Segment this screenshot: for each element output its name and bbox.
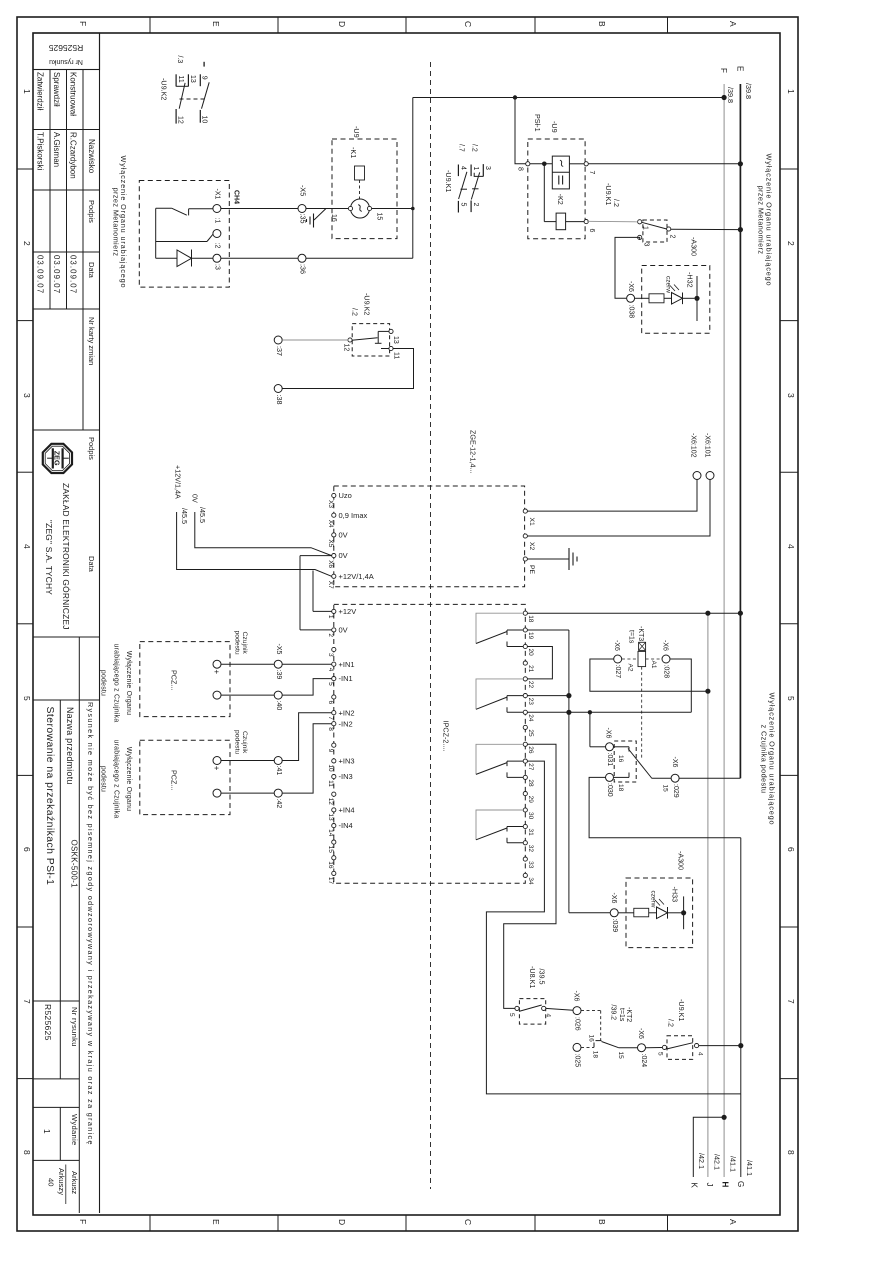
svg-text:16: 16	[588, 1035, 595, 1043]
svg-text:z Czujnika podestu: z Czujnika podestu	[760, 725, 769, 794]
svg-text:przez Metanomierz: przez Metanomierz	[112, 188, 121, 257]
wire :027 loop to J	[590, 659, 708, 691]
wire rect out	[569, 163, 584, 165]
svg-text:7: 7	[22, 999, 32, 1004]
svg-text:3: 3	[484, 166, 491, 170]
wire branch to X6:031	[589, 712, 591, 747]
svg-text:29: 29	[527, 796, 534, 804]
svg-text:-X6: -X6	[627, 281, 634, 292]
svg-text:8: 8	[786, 1150, 796, 1155]
svg-text:13: 13	[392, 336, 399, 344]
wire pin7 to E	[588, 163, 740, 165]
svg-text:A.Gisman: A.Gisman	[52, 132, 61, 167]
svg-text:/42.1: /42.1	[697, 1153, 706, 1169]
resistor in A300-2	[618, 912, 634, 914]
svg-text:Nazwisko: Nazwisko	[87, 139, 96, 174]
svg-text:Data: Data	[87, 556, 96, 573]
svg-text:27: 27	[527, 763, 534, 771]
svg-text:22: 22	[527, 681, 534, 689]
svg-text:/45.5: /45.5	[180, 508, 189, 524]
svg-text:CH4: CH4	[233, 190, 240, 204]
svg-text:R.Czardybon: R.Czardybon	[69, 132, 78, 179]
svg-text:OSKK-500-1: OSKK-500-1	[70, 840, 79, 889]
svg-text:czerw: czerw	[665, 276, 672, 293]
svg-text:+12V/1,4A: +12V/1,4A	[174, 465, 183, 499]
svg-text:10: 10	[327, 764, 334, 772]
svg-text:Arkuszy: Arkuszy	[57, 1168, 66, 1195]
svg-text:podestu: podestu	[100, 766, 107, 792]
svg-text::39: :39	[275, 670, 282, 680]
svg-text:-KT3: -KT3	[637, 626, 644, 641]
svg-text:4: 4	[697, 1052, 704, 1056]
svg-text:X4: X4	[327, 520, 334, 528]
ZGE pin X2	[523, 534, 527, 538]
ZGE pin PE	[523, 557, 527, 561]
terminal -X1:3	[213, 254, 221, 262]
svg-text:-U9.K1: -U9.K1	[604, 183, 613, 205]
svg-text:-IN1: -IN1	[339, 674, 353, 683]
wire X1:1 to X5:35	[221, 208, 298, 210]
wire :37 to contact	[282, 339, 348, 341]
wire 0V branch to pin2	[300, 555, 332, 557]
svg-text:03.09.07: 03.09.07	[52, 255, 61, 294]
svg-text:Nr rysunku: Nr rysunku	[70, 1007, 79, 1047]
svg-text:4: 4	[327, 668, 334, 672]
svg-text:Rysunek nie może być bez pisem: Rysunek nie może być bez pisemnej zgody …	[86, 702, 95, 1146]
svg-text::37: :37	[275, 346, 284, 356]
terminal -X6:039	[610, 909, 618, 917]
svg-text::36: :36	[299, 264, 308, 274]
wire rect in with branch	[530, 163, 553, 165]
svg-text:10: 10	[200, 116, 207, 124]
svg-text:X7: X7	[327, 581, 334, 589]
svg-text:/42.1: /42.1	[713, 1154, 722, 1170]
terminal -X6:102	[693, 472, 701, 480]
wire pin24 to KT3 loop	[527, 711, 691, 713]
box PSl-1 -U9	[528, 139, 585, 239]
svg-text:E: E	[736, 66, 745, 71]
svg-text:16: 16	[617, 755, 624, 763]
svg-text:/39.2: /39.2	[610, 1005, 617, 1021]
svg-text::028: :028	[663, 665, 670, 679]
svg-text:PCZ...: PCZ...	[170, 670, 179, 690]
svg-text:X1: X1	[528, 518, 535, 527]
terminal -X5:40	[274, 691, 282, 699]
svg-text:F: F	[78, 21, 88, 26]
wire +12V branch to pin1	[312, 571, 314, 612]
svg-text:2: 2	[669, 235, 676, 239]
svg-text:16: 16	[330, 214, 337, 222]
wire PCZ2+ to IN2+	[221, 760, 274, 762]
svg-text:/39.8: /39.8	[744, 83, 753, 99]
svg-text:-IN3: -IN3	[339, 772, 353, 781]
svg-text::42: :42	[275, 799, 282, 809]
svg-text:6: 6	[22, 847, 32, 852]
svg-text:-X1: -X1	[214, 189, 221, 200]
svg-text::1: :1	[214, 218, 221, 224]
terminal -X6:025	[573, 1043, 581, 1051]
svg-text:-U9: -U9	[550, 121, 559, 133]
wire to PSl-1 pin 8	[515, 98, 528, 164]
svg-text:R525625: R525625	[43, 1004, 53, 1041]
svg-text:/39.8: /39.8	[726, 87, 735, 103]
svg-text:PE: PE	[528, 565, 535, 575]
svg-text:-X5: -X5	[275, 644, 282, 655]
svg-text:-U9: -U9	[352, 126, 361, 138]
box CH4	[139, 181, 229, 288]
terminal -X6:038	[627, 294, 635, 302]
wire bus to :039	[569, 912, 610, 914]
svg-text:X6: X6	[327, 560, 334, 568]
wire X2 to X6:101	[527, 480, 710, 537]
resistor in A300	[649, 294, 664, 303]
svg-text:ZEG: ZEG	[53, 451, 62, 466]
svg-text:26: 26	[527, 746, 534, 754]
wire contact 11 to :38	[282, 349, 413, 389]
svg-text:+: +	[212, 670, 221, 675]
wire CH4 common to :2	[155, 208, 157, 258]
svg-text:+IN1: +IN1	[339, 660, 355, 669]
svg-text::40: :40	[275, 701, 282, 711]
wire :038 to A300	[635, 297, 649, 299]
svg-text:ZGE-12-1,4...: ZGE-12-1,4...	[469, 430, 478, 474]
svg-text::030: :030	[606, 783, 613, 797]
svg-text:4: 4	[545, 1014, 552, 1018]
svg-text::41: :41	[275, 766, 282, 776]
svg-text:/.2: /.2	[612, 199, 621, 207]
svg-text:11: 11	[327, 780, 334, 787]
svg-text:"ZEG" S.A. TYCHY: "ZEG" S.A. TYCHY	[44, 520, 54, 595]
svg-text::024: :024	[640, 1054, 647, 1068]
svg-text:A: A	[728, 21, 738, 27]
wire PCZ2- to IN2-	[221, 792, 274, 794]
svg-text:-X6: -X6	[605, 728, 612, 739]
svg-text::2: :2	[214, 243, 221, 249]
svg-text:40: 40	[47, 1178, 56, 1186]
svg-text:+12V: +12V	[339, 607, 357, 616]
svg-text:t=1s: t=1s	[628, 630, 635, 644]
wire pin6 to contact 1	[587, 220, 638, 223]
svg-text:-X6:101: -X6:101	[704, 433, 711, 458]
svg-text:3: 3	[327, 653, 334, 657]
svg-text:8: 8	[517, 167, 524, 171]
terminal -X6:026	[573, 1007, 581, 1015]
dashed links KT3	[622, 658, 638, 660]
svg-text:0V: 0V	[339, 551, 348, 560]
terminal -X1:1	[213, 205, 221, 213]
wire X5:36 right	[306, 257, 413, 259]
svg-text:ZAKŁAD ELEKTRONIKI GÓRNICZEJ: ZAKŁAD ELEKTRONIKI GÓRNICZEJ	[61, 483, 71, 630]
svg-text:Wyłączenie Organu: Wyłączenie Organu	[125, 747, 132, 811]
svg-text:urabiającego z Czujnika: urabiającego z Czujnika	[112, 644, 119, 723]
svg-text:przez Metanomierz: przez Metanomierz	[757, 186, 766, 255]
svg-text:Arkusz: Arkusz	[70, 1171, 79, 1194]
svg-text:PSł-1: PSł-1	[533, 114, 542, 132]
svg-text:Konstruował: Konstruował	[69, 72, 78, 116]
svg-text:F: F	[719, 68, 728, 73]
LED -H33 czerw	[649, 912, 657, 914]
svg-text:13: 13	[189, 75, 196, 83]
svg-text::031: :031	[606, 753, 613, 767]
wire X5:35 to lamp	[306, 208, 349, 210]
svg-text:Czujnik: Czujnik	[241, 731, 248, 754]
svg-text:-X6: -X6	[610, 893, 617, 904]
svg-text:7: 7	[786, 999, 796, 1004]
wire contact 2 to E	[671, 228, 741, 230]
svg-text:15: 15	[376, 213, 383, 221]
svg-text:18: 18	[592, 1051, 599, 1059]
terminal :38	[274, 385, 282, 393]
svg-text:13: 13	[327, 813, 334, 821]
svg-text:D: D	[337, 1219, 347, 1225]
svg-text:1: 1	[42, 1129, 52, 1134]
svg-text:03.09.07: 03.09.07	[36, 255, 45, 294]
svg-text:-U9.K1: -U9.K1	[677, 999, 686, 1021]
terminal -X5:35	[298, 205, 306, 213]
svg-text:3: 3	[22, 393, 32, 398]
svg-text:podestu: podestu	[234, 631, 241, 655]
svg-text:2: 2	[22, 241, 32, 246]
svg-text:-U9.K2: -U9.K2	[363, 293, 372, 315]
bus G segment	[740, 838, 742, 1094]
svg-text:B: B	[597, 1219, 607, 1225]
terminal -X1:2	[213, 230, 221, 238]
svg-text:18: 18	[527, 615, 534, 623]
ruler bands	[17, 168, 33, 170]
terminal -X5:41	[274, 757, 282, 765]
net G /41.1	[740, 1094, 742, 1177]
svg-text:1: 1	[472, 167, 479, 171]
svg-text:-X5: -X5	[299, 185, 308, 196]
PCZ1 terminals	[213, 660, 221, 668]
svg-text:/45.5: /45.5	[198, 507, 207, 523]
title block outer edge	[99, 33, 101, 1213]
svg-text:0V: 0V	[339, 531, 348, 540]
svg-text:15: 15	[327, 846, 334, 854]
svg-text:0V: 0V	[191, 494, 200, 503]
svg-text:-X6: -X6	[637, 1028, 644, 1039]
svg-text:30: 30	[527, 812, 534, 820]
svg-text::038: :038	[628, 305, 635, 319]
svg-text:2: 2	[786, 241, 796, 246]
svg-text:A2: A2	[627, 664, 634, 672]
svg-text:32: 32	[527, 845, 534, 853]
svg-text:A1: A1	[650, 661, 657, 669]
company box	[33, 429, 83, 431]
svg-text:19: 19	[527, 632, 534, 640]
arkusz cell	[33, 1159, 79, 1161]
svg-text:24: 24	[527, 714, 534, 722]
PCZ2 terminals	[213, 757, 221, 765]
border frame inner	[33, 33, 780, 1215]
svg-text:podestu: podestu	[100, 670, 107, 696]
svg-text:C: C	[463, 1219, 473, 1225]
svg-text:podestu: podestu	[234, 730, 241, 754]
svg-text:czerw: czerw	[650, 891, 657, 908]
rectifier symbol	[552, 156, 569, 189]
svg-text:33: 33	[527, 861, 534, 869]
svg-text:1: 1	[642, 226, 649, 230]
svg-text:12: 12	[343, 344, 350, 352]
relay coil -K2	[556, 213, 566, 230]
svg-text:0,9 Imax: 0,9 Imax	[339, 511, 368, 520]
svg-text:Data: Data	[87, 262, 96, 279]
wire :028 loop to pin24 net	[670, 659, 691, 712]
svg-text:8: 8	[327, 727, 334, 731]
svg-text:E: E	[211, 1219, 221, 1225]
svg-text:18: 18	[617, 784, 624, 792]
svg-text:0V: 0V	[339, 626, 348, 635]
svg-text:31: 31	[527, 829, 534, 837]
terminal -X6:029	[671, 774, 679, 782]
nazwa przedmiotu section	[33, 699, 100, 701]
svg-text:8: 8	[22, 1150, 32, 1155]
terminal -X6:101	[706, 472, 714, 480]
box PCZ 1	[140, 642, 230, 717]
nr rysunku cell	[33, 1000, 79, 1002]
svg-text:12: 12	[327, 798, 334, 806]
terminal -X6:024	[638, 1044, 646, 1052]
wydanie cell	[33, 1106, 79, 1108]
svg-text:Sterowanie na przekaźnikach PS: Sterowanie na przekaźnikach PSł-1	[44, 707, 55, 886]
svg-text:2: 2	[472, 203, 479, 207]
svg-text:15: 15	[662, 785, 669, 793]
svg-text:Sprawdził: Sprawdził	[52, 72, 61, 107]
terminal -X6:031	[606, 743, 614, 751]
svg-text:-IN2: -IN2	[339, 719, 353, 728]
svg-text:X3: X3	[327, 500, 334, 508]
svg-text:/.2: /.2	[351, 308, 360, 316]
svg-text:17: 17	[327, 877, 334, 885]
svg-text:+IN2: +IN2	[339, 708, 355, 717]
svg-text:/41.1: /41.1	[745, 1160, 754, 1176]
box ZGE-12-1,4	[334, 486, 525, 587]
pin 8	[526, 162, 530, 166]
svg-text:9: 9	[201, 76, 208, 80]
svg-text:-A300: -A300	[690, 237, 699, 256]
svg-text::38: :38	[275, 395, 284, 405]
svg-text:A: A	[728, 1219, 738, 1225]
LED -H32 czerw	[664, 297, 672, 299]
wire pin26 to U8.K1 pin5	[504, 744, 556, 1008]
svg-text:-A300: -A300	[677, 851, 686, 870]
IPCZ right pins 18..34	[523, 611, 527, 615]
svg-text:-X6: -X6	[671, 757, 678, 768]
wire :030 down to G net	[589, 777, 741, 837]
svg-text:-X6: -X6	[613, 640, 620, 651]
wire F to lamp branch	[413, 97, 724, 99]
svg-text:5: 5	[657, 1052, 664, 1056]
svg-text:-IN4: -IN4	[339, 821, 353, 830]
svg-text:/.2: /.2	[471, 144, 478, 152]
svg-text:Nazwa przedmiotu: Nazwa przedmiotu	[65, 707, 75, 785]
wire PCZ1- to IN1-	[221, 694, 274, 696]
ground at PE	[527, 558, 569, 560]
svg-text:03.09.07: 03.09.07	[69, 255, 78, 294]
svg-text:C: C	[463, 21, 473, 27]
svg-text:5: 5	[786, 696, 796, 701]
svg-text:-H32: -H32	[686, 272, 695, 288]
svg-text:4: 4	[460, 166, 467, 170]
svg-text:/.7: /.7	[458, 144, 465, 152]
svg-text:23: 23	[527, 698, 534, 706]
box -U9 (lamp)	[332, 139, 397, 239]
terminal -X5:42	[274, 789, 282, 797]
svg-text:16: 16	[327, 861, 334, 869]
svg-text:/39.5: /39.5	[538, 969, 547, 985]
diode in CH4	[156, 257, 177, 259]
svg-text:12: 12	[177, 116, 184, 124]
svg-text:Uzo: Uzo	[339, 491, 352, 500]
wire pin27 to bottom loop	[486, 761, 740, 1094]
svg-text:T.Piskorski: T.Piskorski	[36, 132, 45, 170]
title block: Nr rysunku corner box (rotated 180)	[33, 33, 100, 70]
svg-text:G: G	[736, 1181, 745, 1187]
svg-text:6: 6	[786, 847, 796, 852]
svg-text:5: 5	[460, 203, 467, 207]
svg-text:R525625: R525625	[48, 43, 83, 53]
wire X1:3 to X5:36	[221, 257, 298, 259]
svg-text:11: 11	[393, 352, 400, 359]
ZEG logo	[43, 444, 72, 473]
svg-text::027: :027	[614, 665, 621, 679]
terminal -X6:028	[662, 655, 670, 663]
svg-text:Wyłączenie Organu: Wyłączenie Organu	[125, 651, 132, 715]
bus x569	[568, 630, 570, 913]
svg-text:20: 20	[527, 649, 534, 657]
svg-text:25: 25	[527, 729, 534, 737]
pin 7	[584, 162, 588, 166]
svg-text:Zatwierdził: Zatwierdził	[36, 72, 45, 110]
svg-text:Wydanie: Wydanie	[70, 1114, 79, 1146]
wire contact 3 to X6:038	[615, 237, 640, 298]
svg-text:K: K	[690, 1183, 699, 1189]
wire pin23 to bus	[527, 695, 569, 697]
svg-text:X5: X5	[327, 539, 334, 547]
svg-text:/.3: /.3	[176, 56, 183, 64]
terminal :37	[274, 336, 282, 344]
wire lamp to F branch	[372, 208, 413, 210]
svg-text:B: B	[597, 21, 607, 27]
svg-text:-U9.K1: -U9.K1	[444, 170, 453, 192]
svg-text:Podpis: Podpis	[87, 200, 96, 223]
wire pin18 to E (J junctions)	[527, 612, 740, 614]
svg-text:-H33: -H33	[671, 887, 680, 903]
svg-text:9: 9	[327, 749, 334, 753]
IPCZ left pins 1..17	[332, 609, 336, 613]
bus J segment	[707, 613, 709, 1177]
svg-text:Czujnik: Czujnik	[241, 632, 248, 655]
svg-text:1: 1	[22, 89, 32, 94]
svg-text:IPCZ-2....: IPCZ-2....	[442, 721, 451, 752]
jumper pin20 to pin22	[527, 647, 552, 679]
svg-text:E: E	[211, 21, 221, 27]
lamp -U9 16/15	[351, 199, 370, 218]
svg-text:28: 28	[527, 779, 534, 787]
wire pin19 to bus	[527, 629, 569, 631]
terminal -X5:39	[274, 660, 282, 668]
timer contact KT3	[614, 741, 636, 782]
svg-text:5: 5	[22, 696, 32, 701]
svg-text:2: 2	[327, 633, 334, 637]
IPCZ internal changeover contacts	[476, 613, 523, 643]
svg-text:Podpis: Podpis	[87, 437, 96, 460]
svg-text:PCZ...: PCZ...	[170, 770, 179, 790]
svg-text:-X6:102: -X6:102	[690, 433, 697, 458]
title block grid	[33, 69, 100, 71]
wire :029 to E	[679, 777, 740, 779]
svg-text:1: 1	[786, 89, 796, 94]
